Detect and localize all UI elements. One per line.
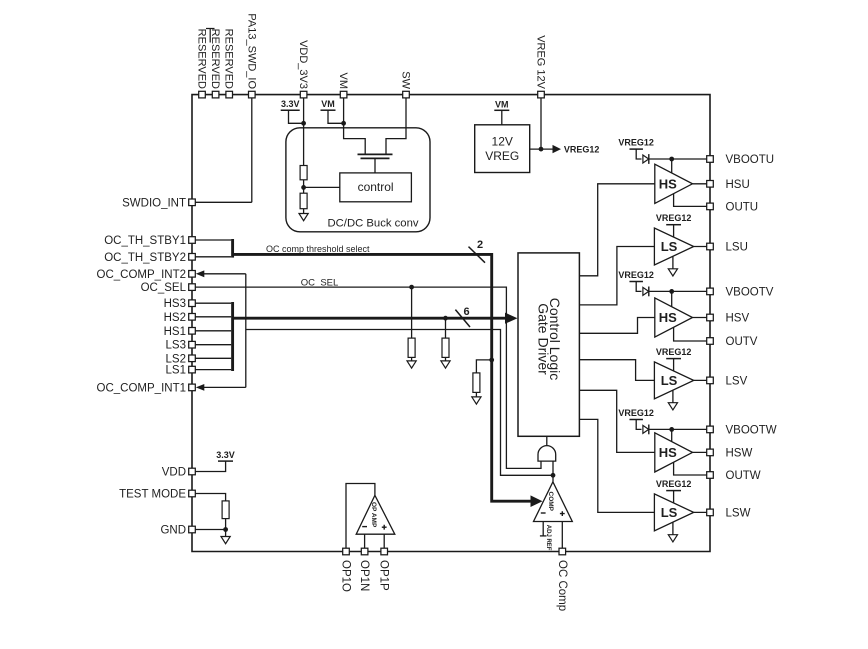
svg-text:OC_COMP_INT1: OC_COMP_INT1 xyxy=(97,382,186,394)
svg-text:OUTW: OUTW xyxy=(726,470,761,482)
svg-text:TEST MODE: TEST MODE xyxy=(119,489,186,501)
svg-text:LS2: LS2 xyxy=(166,353,186,365)
svg-text:DC/DC Buck conv: DC/DC Buck conv xyxy=(327,218,418,230)
svg-text:HS: HS xyxy=(659,177,677,192)
svg-text:HSV: HSV xyxy=(726,313,750,325)
svg-text:VREG12: VREG12 xyxy=(618,138,654,148)
svg-text:LSU: LSU xyxy=(726,242,748,254)
svg-text:OC_COMP_INT2: OC_COMP_INT2 xyxy=(97,269,186,281)
svg-text:LS: LS xyxy=(661,373,678,388)
svg-text:VREG12: VREG12 xyxy=(618,270,654,280)
svg-text:LS: LS xyxy=(661,239,678,254)
svg-text:VDD_3V3: VDD_3V3 xyxy=(297,40,309,89)
svg-text:HS2: HS2 xyxy=(164,312,186,324)
svg-text:OC_TH_STBY1: OC_TH_STBY1 xyxy=(104,235,186,247)
svg-text:SW: SW xyxy=(400,71,412,89)
svg-text:VREG12: VREG12 xyxy=(656,479,692,489)
svg-text:12V: 12V xyxy=(492,135,513,149)
svg-text:OP1N: OP1N xyxy=(358,560,370,591)
svg-text:VDD: VDD xyxy=(162,467,186,479)
svg-text:HS1: HS1 xyxy=(164,326,186,338)
svg-text:VM: VM xyxy=(337,73,349,90)
svg-text:VREG12: VREG12 xyxy=(618,408,654,418)
svg-text:GND: GND xyxy=(160,525,186,537)
svg-text:RESERVED: RESERVED xyxy=(209,29,221,89)
svg-text:VREG 12V: VREG 12V xyxy=(535,35,547,89)
svg-text:control: control xyxy=(358,180,394,194)
svg-text:RESERVED: RESERVED xyxy=(223,29,235,89)
svg-text:OC_TH_STBY2: OC_TH_STBY2 xyxy=(104,252,186,264)
svg-text:VREG12: VREG12 xyxy=(656,213,692,223)
svg-text:LS3: LS3 xyxy=(166,340,186,352)
svg-text:OC Comp: OC Comp xyxy=(556,560,568,611)
svg-text:OC_SEL: OC_SEL xyxy=(301,278,339,289)
svg-text:OP1P: OP1P xyxy=(378,560,390,591)
svg-text:COMP: COMP xyxy=(547,492,554,512)
svg-text:HS: HS xyxy=(659,445,677,460)
svg-text:OP1O: OP1O xyxy=(340,560,352,592)
svg-text:LSV: LSV xyxy=(726,375,748,387)
svg-text:LSW: LSW xyxy=(726,507,751,519)
svg-text:RESERVED: RESERVED xyxy=(196,29,208,89)
svg-text:3.3V: 3.3V xyxy=(281,99,300,109)
svg-text:VREG12: VREG12 xyxy=(656,347,692,357)
svg-text:HS3: HS3 xyxy=(164,298,186,310)
svg-text:Control LogicGate Driver: Control LogicGate Driver xyxy=(535,298,563,381)
svg-text:PA13_SWD_IO: PA13_SWD_IO xyxy=(245,13,257,89)
svg-text:SWDIO_INT: SWDIO_INT xyxy=(122,197,186,209)
svg-text:OP AMP: OP AMP xyxy=(370,502,377,528)
svg-text:OC comp threshold select: OC comp threshold select xyxy=(266,244,370,254)
svg-text:VBOOTV: VBOOTV xyxy=(726,286,774,298)
svg-text:OUTU: OUTU xyxy=(726,201,759,213)
svg-text:VREG: VREG xyxy=(485,149,519,163)
svg-text:HS: HS xyxy=(659,310,677,325)
svg-text:6: 6 xyxy=(464,306,470,318)
svg-text:HSW: HSW xyxy=(726,447,753,459)
svg-text:VREG12: VREG12 xyxy=(564,145,600,155)
svg-text:OUTV: OUTV xyxy=(726,336,758,348)
svg-text:VBOOTU: VBOOTU xyxy=(726,154,775,166)
svg-text:VBOOTW: VBOOTW xyxy=(726,424,777,436)
svg-text:VM: VM xyxy=(495,99,509,109)
svg-text:OC_SEL: OC_SEL xyxy=(141,282,187,294)
svg-text:LS1: LS1 xyxy=(166,365,186,377)
svg-text:3.3V: 3.3V xyxy=(216,450,235,460)
svg-text:2: 2 xyxy=(477,239,483,251)
svg-text:VM: VM xyxy=(321,99,335,109)
svg-text:HSU: HSU xyxy=(726,179,750,191)
svg-text:LS: LS xyxy=(661,505,678,520)
svg-text:ADJ REF: ADJ REF xyxy=(545,525,551,551)
